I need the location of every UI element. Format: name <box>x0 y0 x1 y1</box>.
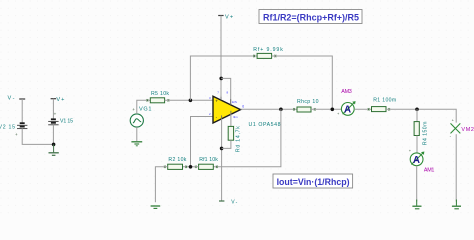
ground (R2) <box>151 206 161 208</box>
wire V+ rail to V1 <box>52 99 54 119</box>
wire Rhcp to AM3 <box>311 108 341 110</box>
svg-text:U1 OPA548: U1 OPA548 <box>249 122 281 128</box>
svg-text:V1 15: V1 15 <box>60 119 73 125</box>
svg-text:6: 6 <box>242 105 244 109</box>
resistor Rhcp <box>293 107 315 112</box>
resistor Rf1 <box>195 164 218 169</box>
svg-text:Rf1 10k: Rf1 10k <box>199 157 218 163</box>
wire V1 to junction <box>52 125 54 145</box>
wire Rd to V- wire <box>222 140 231 148</box>
svg-text:A: A <box>344 104 351 115</box>
wire junction down to R4 <box>416 109 418 121</box>
svg-text:R1 100m: R1 100m <box>373 98 396 104</box>
wire Rf1 to R2 <box>183 166 199 168</box>
wire Rf+ to load node <box>272 56 333 109</box>
svg-text:V+: V+ <box>225 14 233 20</box>
wire VG1 to ground <box>136 127 138 141</box>
svg-text:R2 10k: R2 10k <box>168 157 186 163</box>
resistor Rf+ <box>253 53 276 58</box>
svg-text:Iout=Vin·(1/Rhcp): Iout=Vin·(1/Rhcp) <box>277 177 350 188</box>
svg-text:Rhcp 10: Rhcp 10 <box>297 99 319 105</box>
node V- rail symbol (left) <box>19 98 25 100</box>
svg-text:VM2: VM2 <box>461 127 474 133</box>
wire R2 to ground <box>155 167 167 202</box>
voltmeter pin VM2 <box>450 118 461 139</box>
wire R4 to AM1 <box>416 136 418 153</box>
ammeter AM1 <box>409 148 425 166</box>
svg-text:Rd 14,7k: Rd 14,7k <box>236 126 242 152</box>
svg-text:A: A <box>413 155 420 166</box>
svg-text:+: + <box>54 111 57 116</box>
wire V+ rail down to op-amp supply pin <box>220 16 222 100</box>
wire output down to Rf1 <box>213 109 281 167</box>
svg-text:Rf1/R2=(Rhcp+Rf+)/R5: Rf1/R2=(Rhcp+Rf+)/R5 <box>263 13 360 24</box>
svg-text:V2 15: V2 15 <box>0 124 15 130</box>
wire R5 to +in node <box>165 99 213 101</box>
wire AM3 to R1 <box>354 108 371 110</box>
formula box Rf1/R2=(Rhcp+Rf+)/R5 <box>259 10 362 24</box>
battery V2 <box>15 123 27 137</box>
wire enable branch to op-amp E/S pin <box>221 78 231 104</box>
svg-text:AM1: AM1 <box>424 167 435 173</box>
op-amp U1 <box>209 91 244 123</box>
svg-text:+: + <box>15 132 18 137</box>
svg-text:VG1: VG1 <box>139 107 152 113</box>
svg-text:V+: V+ <box>56 97 64 103</box>
wire +in node up to Rf+ line <box>190 56 257 100</box>
node V- rail symbol (bottom) <box>219 200 224 202</box>
svg-text:AM3: AM3 <box>341 89 352 95</box>
wire R1 to right corner <box>386 109 456 122</box>
node -in/R2/Rf1 junction <box>189 165 193 169</box>
generator VG1 <box>130 107 143 127</box>
wire VM2 to ground <box>455 134 457 201</box>
wire AM1 to ground <box>416 166 418 202</box>
svg-text:R4 150m: R4 150m <box>422 122 428 146</box>
ground (VG1) <box>131 142 142 146</box>
junction battery node <box>52 143 56 147</box>
battery V1 <box>48 111 58 124</box>
wire V- rail to V2 <box>21 99 23 123</box>
resistor R5 <box>147 98 170 103</box>
svg-text:R5 10k: R5 10k <box>151 91 169 97</box>
svg-text:+: + <box>132 107 135 112</box>
formula box Iout=Vin(1/Rhcp) <box>273 174 353 188</box>
node V+ rail symbol (top) <box>218 15 223 17</box>
node output junction <box>279 108 283 112</box>
resistor R1 <box>368 107 390 112</box>
ground (AM1) <box>412 200 421 209</box>
svg-text:E/S: E/S <box>232 100 237 104</box>
wire op-amp output <box>241 108 298 110</box>
ground (VM2) <box>452 200 461 209</box>
node R4 branch junction <box>415 108 419 112</box>
node V+ rail symbol (left) <box>51 98 57 100</box>
ammeter AM3 <box>337 101 356 116</box>
svg-text:+: + <box>215 98 218 103</box>
resistor Rd <box>228 126 233 140</box>
node V-/Rd junction <box>220 147 224 151</box>
ground (battery node) <box>49 144 59 155</box>
resistor R2 <box>164 164 187 169</box>
resistor R4 <box>414 122 419 136</box>
wire V2 to junction <box>22 129 53 145</box>
node load junction (Rf+ tap) <box>331 108 335 112</box>
wire op-amp Ilim pin to Rd <box>230 114 232 127</box>
svg-text:Ilim: Ilim <box>233 115 238 119</box>
node V+/enable junction <box>219 77 223 81</box>
wire -in node vertical <box>191 117 214 167</box>
wire VG1 to R5 <box>137 100 151 114</box>
svg-text:Rf+ 9.99k: Rf+ 9.99k <box>253 47 283 53</box>
node +input junction <box>189 99 193 103</box>
wire op-amp V- pin down to V- rail <box>221 119 223 201</box>
